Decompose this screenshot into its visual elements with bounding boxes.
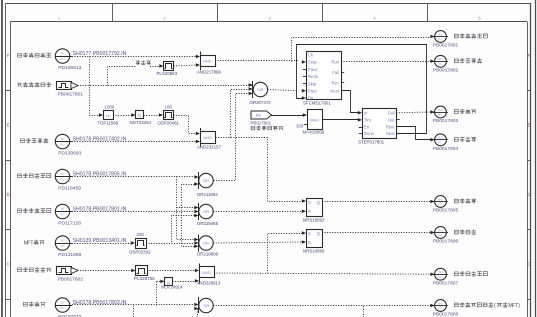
svg-text:R: R bbox=[308, 209, 311, 214]
svg-text:C: C bbox=[527, 262, 530, 267]
svg-text:PB0017805: PB0017805 bbox=[433, 208, 459, 214]
svg-text:S: S bbox=[308, 200, 311, 205]
svg-text:PA: PA bbox=[256, 113, 261, 118]
svg-text:Fail: Fail bbox=[332, 70, 339, 75]
svg-text:C: C bbox=[7, 262, 10, 267]
svg-text:200: 200 bbox=[137, 232, 145, 237]
svg-text:Rec: Rec bbox=[332, 81, 339, 86]
svg-text:AND226813: AND226813 bbox=[197, 281, 221, 286]
svg-text:PC: PC bbox=[60, 57, 65, 61]
svg-text:PC: PC bbox=[60, 244, 65, 248]
svg-text:Done: Done bbox=[364, 131, 375, 136]
svg-text:300: 300 bbox=[296, 123, 304, 128]
svg-text:Next: Next bbox=[386, 131, 395, 136]
svg-text:(: ( bbox=[494, 303, 496, 309]
svg-text:PD118459: PD118459 bbox=[58, 186, 81, 192]
svg-text:Fail: Fail bbox=[388, 111, 395, 116]
svg-text:E: E bbox=[528, 123, 531, 128]
svg-text:TF: TF bbox=[106, 114, 111, 119]
svg-text:D: D bbox=[7, 192, 10, 197]
svg-text:MAX20068: MAX20068 bbox=[303, 130, 325, 135]
svg-text:PB0017806: PB0017806 bbox=[433, 239, 459, 245]
svg-text:MAX: MAX bbox=[310, 117, 319, 122]
svg-text:PD130693: PD130693 bbox=[58, 151, 81, 157]
svg-text:PB017801: PB017801 bbox=[251, 120, 272, 125]
svg-text:PC: PC bbox=[60, 178, 65, 182]
svg-text:AND: AND bbox=[203, 59, 212, 64]
svg-text:OR: OR bbox=[203, 303, 209, 308]
svg-text:F: F bbox=[528, 53, 531, 58]
svg-text:Redo: Redo bbox=[308, 74, 319, 79]
svg-text:BO: BO bbox=[438, 57, 443, 61]
svg-text:AND: AND bbox=[203, 135, 212, 140]
svg-text:OR: OR bbox=[203, 209, 209, 214]
svg-text:PD106613: PD106613 bbox=[58, 65, 81, 71]
svg-text:Ch: Ch bbox=[308, 53, 314, 58]
svg-text:Rset: Rset bbox=[308, 89, 317, 94]
svg-text:PB0017808: PB0017808 bbox=[433, 312, 459, 317]
svg-text:TOF11568: TOF11568 bbox=[98, 121, 119, 126]
svg-text:STEP017801: STEP017801 bbox=[358, 140, 385, 145]
svg-text:BO: BO bbox=[438, 301, 443, 305]
svg-text:OR329465: OR329465 bbox=[197, 221, 219, 226]
svg-text:OR307472: OR307472 bbox=[250, 100, 272, 105]
svg-text:PLS20766: PLS20766 bbox=[134, 276, 155, 281]
svg-text:OR: OR bbox=[203, 178, 209, 183]
svg-text:BO: BO bbox=[438, 32, 443, 36]
svg-text:BO: BO bbox=[438, 228, 443, 232]
svg-text:S: S bbox=[308, 231, 311, 236]
svg-text:DI: DI bbox=[61, 137, 64, 141]
svg-text:DI: DI bbox=[61, 52, 64, 56]
svg-text:100: 100 bbox=[165, 105, 173, 110]
svg-text:PC: PC bbox=[60, 143, 65, 147]
svg-text:AND232157: AND232157 bbox=[197, 144, 221, 149]
svg-text:BO: BO bbox=[438, 108, 443, 112]
svg-text:DI: DI bbox=[61, 172, 64, 176]
svg-text:PB0017804: PB0017804 bbox=[433, 146, 459, 152]
svg-text:PB0017802: PB0017802 bbox=[58, 276, 84, 282]
svg-text:Next: Next bbox=[330, 89, 339, 94]
svg-text:DI: DI bbox=[61, 239, 64, 243]
svg-text:Stop: Stop bbox=[308, 60, 317, 65]
svg-text:PB0017807: PB0017807 bbox=[433, 280, 459, 286]
svg-text:Tim: Tim bbox=[364, 118, 371, 123]
svg-text:PB0017801: PB0017801 bbox=[433, 43, 459, 49]
svg-text:N: N bbox=[138, 113, 141, 118]
svg-text:DI: DI bbox=[61, 301, 64, 305]
svg-text:BO: BO bbox=[438, 197, 443, 201]
svg-text:OSP20481: OSP20481 bbox=[158, 121, 180, 126]
svg-text:BO: BO bbox=[438, 270, 443, 274]
svg-text:F: F bbox=[7, 53, 10, 58]
svg-text:R: R bbox=[308, 240, 311, 245]
svg-text:PD131988: PD131988 bbox=[58, 252, 81, 258]
svg-text:OR211883: OR211883 bbox=[197, 192, 218, 197]
svg-text:1000: 1000 bbox=[105, 105, 115, 110]
svg-text:E: E bbox=[7, 123, 10, 128]
svg-text:OR: OR bbox=[257, 87, 263, 92]
svg-text:PD117128: PD117128 bbox=[58, 221, 81, 227]
svg-text:SH0139.PB0013401.IN: SH0139.PB0013401.IN bbox=[73, 238, 127, 244]
svg-text:NRS19062: NRS19062 bbox=[303, 218, 325, 223]
svg-text:Err: Err bbox=[364, 125, 370, 130]
svg-text:SFCMD17801: SFCMD17801 bbox=[303, 101, 331, 106]
svg-text:Rtim: Rtim bbox=[386, 125, 395, 130]
svg-text:PB0017802: PB0017802 bbox=[433, 68, 459, 74]
svg-text:AND217896: AND217896 bbox=[197, 70, 221, 75]
svg-text:D: D bbox=[527, 192, 530, 197]
svg-text:PB0017801: PB0017801 bbox=[58, 91, 84, 97]
svg-text:DI: DI bbox=[61, 207, 64, 211]
svg-text:NOT24914: NOT24914 bbox=[161, 284, 183, 289]
svg-text:NOT23254: NOT23254 bbox=[130, 120, 152, 125]
svg-text:): ) bbox=[518, 303, 520, 309]
svg-text:Skip: Skip bbox=[308, 81, 317, 86]
svg-text:PLS20863: PLS20863 bbox=[157, 71, 178, 76]
svg-text:Paus: Paus bbox=[308, 67, 318, 72]
svg-text:AND: AND bbox=[202, 270, 211, 275]
svg-text:PC: PC bbox=[60, 306, 65, 310]
svg-text:Out: Out bbox=[388, 118, 396, 123]
svg-text:PB0017803: PB0017803 bbox=[433, 118, 459, 124]
svg-text:OR: OR bbox=[203, 241, 209, 246]
svg-text:SH0177.PB0017792.IN: SH0177.PB0017792.IN bbox=[73, 51, 127, 57]
svg-text:BO: BO bbox=[438, 136, 443, 140]
svg-text:OSP02302: OSP02302 bbox=[129, 250, 151, 255]
svg-text:OR219808: OR219808 bbox=[197, 251, 219, 256]
svg-text:NRS10866: NRS10866 bbox=[303, 249, 325, 254]
svg-text:Run: Run bbox=[331, 60, 339, 65]
svg-text:PC: PC bbox=[60, 213, 65, 217]
